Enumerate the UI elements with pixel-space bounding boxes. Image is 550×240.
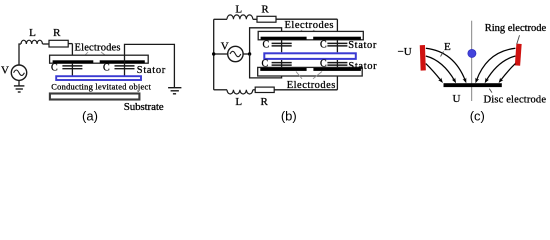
svg-text:C: C xyxy=(103,62,110,73)
label Electrodes (a) xyxy=(75,43,121,54)
conducting levitated object (a) blue slab xyxy=(56,76,141,80)
svg-text:C: C xyxy=(51,62,58,73)
svg-text:U: U xyxy=(453,93,461,105)
leader to bottom-right electrode (b) xyxy=(313,72,322,79)
svg-text:C: C xyxy=(262,59,269,70)
wire source to inner rail (b) xyxy=(243,53,250,55)
wire source bottom to ground (a) xyxy=(18,80,20,85)
leader line to right electrode xyxy=(101,52,111,60)
label -U xyxy=(398,46,412,58)
voltage source V1 (AC source circle with sine) xyxy=(11,65,26,80)
label E xyxy=(444,41,451,53)
field arrow left inner xyxy=(426,48,466,80)
label V (b) xyxy=(221,41,229,53)
svg-text:(a): (a) xyxy=(82,109,98,124)
svg-text:Stator: Stator xyxy=(348,40,377,51)
svg-text:Conducting levitated object: Conducting levitated object xyxy=(51,83,151,92)
wire coil to resistor bottom (b) xyxy=(253,89,255,91)
svg-text:−U: −U xyxy=(398,46,412,58)
ground right (a) xyxy=(168,88,181,94)
svg-text:Substrate: Substrate xyxy=(124,101,164,113)
caption (a) xyxy=(82,109,98,124)
label L top (b) xyxy=(235,4,242,16)
svg-text:(b): (b) xyxy=(281,109,297,124)
leader Ring electrode to right bar xyxy=(517,35,520,44)
junction dot inner rail (b) xyxy=(248,52,251,55)
wire rail to source (b) xyxy=(214,53,228,55)
label Electrodes top (b) xyxy=(285,20,334,31)
caption (b) xyxy=(281,109,297,124)
wire left electrode vertical feed through stator to object xyxy=(71,44,73,76)
svg-text:C: C xyxy=(320,39,327,50)
field arrow left outer xyxy=(426,64,441,81)
disc electrode bar xyxy=(444,83,502,87)
svg-text:Electrodes: Electrodes xyxy=(285,20,334,31)
electrode bar right segment (a) xyxy=(100,60,145,63)
label C left (a) xyxy=(51,62,58,73)
stator body (a) xyxy=(50,55,149,63)
electrode bar bottom-right segment (b) xyxy=(313,68,361,71)
svg-text:(c): (c) xyxy=(470,109,485,124)
label R top (b) xyxy=(261,4,269,16)
leader to top-right electrode (b) xyxy=(313,30,323,37)
label Electrodes bottom (b) xyxy=(287,80,336,91)
svg-text:C: C xyxy=(320,59,327,70)
stator body bottom (b) xyxy=(258,67,363,76)
label C right (a) xyxy=(103,62,110,73)
junction dot outer rail (b) xyxy=(212,52,215,55)
voltage source V1 label xyxy=(1,65,9,77)
top wire to inductor (b) xyxy=(214,18,227,20)
svg-text:E: E xyxy=(444,41,451,53)
inner rail top hook (b) xyxy=(250,28,282,54)
right feed vertical bottom (b) xyxy=(336,60,338,90)
capacitor C bottom-left (b) plates xyxy=(272,63,292,66)
svg-text:R: R xyxy=(261,96,269,108)
caption (c) xyxy=(470,109,485,124)
svg-text:Electrodes: Electrodes xyxy=(75,43,121,54)
substrate bar (a) xyxy=(50,94,139,100)
capacitor C top-left (b) plates xyxy=(272,43,292,46)
leader Disc electrode to disc bar xyxy=(489,89,492,93)
ground left (a) xyxy=(14,86,25,92)
inductor L1 xyxy=(21,40,42,44)
svg-text:L: L xyxy=(235,96,242,108)
wire coil to resistor top (b) xyxy=(253,18,257,20)
electrode bar top-right segment (b) xyxy=(313,37,361,40)
svg-text:V: V xyxy=(1,65,9,77)
svg-text:Stator: Stator xyxy=(348,61,377,72)
axis line (c) xyxy=(471,21,473,101)
label Stator top (b) xyxy=(348,40,377,51)
stator body top (b) xyxy=(258,31,363,39)
electrode bar bottom-left segment (b) xyxy=(260,68,306,71)
field arrow right inner xyxy=(476,48,515,80)
ring electrode left bar xyxy=(420,45,426,71)
label Stator bottom (b) xyxy=(348,61,377,72)
capacitor C top-right (b) plates xyxy=(327,43,347,46)
label Stator (a) xyxy=(137,65,166,76)
inner rail bottom hook (b) xyxy=(250,54,282,78)
right feed vertical top (b) xyxy=(336,19,338,52)
electrode bar left segment (a) xyxy=(53,60,94,63)
field arrow right middle xyxy=(486,56,515,81)
svg-text:Stator: Stator xyxy=(137,65,166,76)
label C top-right (b) xyxy=(320,39,327,50)
field arrow right outer xyxy=(500,64,515,81)
label Disc electrode xyxy=(484,95,547,106)
label R xyxy=(53,27,61,39)
wire resistor to right feed (b top) xyxy=(276,18,337,20)
capacitor C left (a) plates xyxy=(62,66,82,69)
label C bottom-left (b) xyxy=(262,59,269,70)
resistor R1 xyxy=(49,40,68,47)
field arrow left middle xyxy=(426,56,455,81)
outer left rail (b) xyxy=(213,19,215,90)
conducting levitated object (b) blue slab xyxy=(264,53,356,59)
svg-text:Disc electrode: Disc electrode xyxy=(484,95,547,106)
svg-text:Ring electrode: Ring electrode xyxy=(485,23,547,34)
voltage source V2 (AC source circle with sine) xyxy=(228,46,243,61)
leader to bottom-left electrode (b) xyxy=(296,72,302,79)
svg-text:C: C xyxy=(263,39,270,50)
svg-text:Electrodes: Electrodes xyxy=(287,80,336,91)
wire from source top to inductor xyxy=(19,44,21,65)
resistor R bottom (b) xyxy=(255,87,274,92)
wire inductor to resistor xyxy=(43,43,50,45)
label Substrate xyxy=(124,101,164,113)
inductor L bottom (b) xyxy=(227,90,253,94)
leader line to left electrode xyxy=(81,52,88,60)
label U xyxy=(453,93,461,105)
resistor R top (b) xyxy=(257,16,276,22)
label R bottom (b) xyxy=(261,96,269,108)
bottom wire left (b) xyxy=(214,89,227,91)
levitated ball (c) xyxy=(468,49,476,57)
label L bottom (b) xyxy=(235,96,242,108)
capacitor C right (a) plates xyxy=(115,66,135,69)
inductor L top (b) xyxy=(227,15,253,19)
label Ring electrode xyxy=(485,23,547,34)
svg-text:V: V xyxy=(221,41,229,53)
leader from E to field line xyxy=(441,52,444,57)
wire resistor to left electrode feed xyxy=(68,43,72,45)
wire resistor to right feed (b bottom) xyxy=(274,89,337,91)
label Conducting levitated object xyxy=(51,83,151,92)
svg-text:R: R xyxy=(261,4,269,16)
leader to top-left electrode (b) xyxy=(295,30,302,37)
svg-text:R: R xyxy=(53,27,61,39)
label C bottom-right (b) xyxy=(320,59,327,70)
label C top-left (b) xyxy=(263,39,270,50)
svg-text:L: L xyxy=(235,4,242,16)
label L xyxy=(29,27,36,39)
wire right electrode vertical feed to ground rail xyxy=(125,44,175,87)
capacitor C bottom-right (b) plates xyxy=(327,63,347,66)
svg-text:L: L xyxy=(29,27,36,39)
ring electrode right bar xyxy=(515,44,522,66)
electrode bar top-left segment (b) xyxy=(261,37,307,40)
